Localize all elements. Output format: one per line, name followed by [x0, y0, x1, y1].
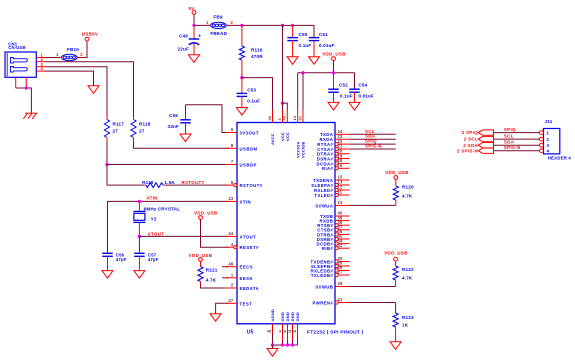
ground	[309, 57, 320, 65]
resistor R117	[106, 117, 108, 120]
svg-text:VDD_USB: VDD_USB	[385, 170, 408, 175]
svg-text:31: 31	[297, 115, 302, 120]
svg-text:USB5V: USB5V	[82, 32, 98, 37]
svg-text:1: 1	[547, 130, 550, 135]
ground	[287, 57, 298, 65]
svg-text:2 SPIQ: 2 SPIQ	[462, 130, 478, 135]
wire R121 to EEDATA	[201, 282, 230, 289]
pin 40 TXDB of U5	[335, 215, 350, 217]
capacitor C54	[354, 73, 356, 89]
wire shell to chassis ground	[16, 88, 32, 113]
svg-text:SPIS-N: SPIS-N	[504, 145, 521, 150]
svg-text:+: +	[198, 33, 201, 39]
resistor R121	[200, 261, 202, 266]
svg-text:C54: C54	[358, 83, 367, 88]
pin 16 RIA# of U5	[338, 167, 349, 169]
svg-text:AGND: AGND	[270, 309, 275, 322]
svg-text:XTIN: XTIN	[240, 199, 252, 204]
resistor R118	[133, 117, 135, 120]
off-page connector SPIQ	[478, 130, 493, 135]
svg-text:22uF: 22uF	[178, 47, 189, 52]
pin 43 XTIN of U5	[226, 200, 238, 202]
svg-text:6MHz CRYSTAL: 6MHz CRYSTAL	[144, 207, 181, 212]
svg-text:47: 47	[228, 298, 233, 303]
svg-text:32: 32	[338, 243, 343, 248]
svg-text:SPIS-N: SPIS-N	[365, 144, 382, 149]
svg-text:26: 26	[338, 281, 343, 286]
pin 41 PWREN# of U5	[338, 302, 349, 304]
ground	[134, 271, 145, 279]
wire XTIN	[108, 201, 230, 253]
off-page connector SCL	[478, 136, 493, 141]
node XTIN-crystal	[138, 200, 141, 203]
wire XTOUT	[139, 235, 229, 237]
svg-text:RIB#: RIB#	[322, 246, 334, 251]
svg-text:18: 18	[282, 330, 287, 334]
svg-text:27: 27	[113, 128, 119, 133]
svg-text:R123: R123	[402, 315, 414, 320]
wire FB9 to VCC rail	[227, 24, 242, 26]
wire TEST to ground	[216, 303, 229, 313]
wire CN1 pin1 to FB10	[45, 57, 61, 59]
svg-text:AVCC: AVCC	[270, 133, 275, 145]
svg-text:2 SPIS-N: 2 SPIS-N	[457, 148, 478, 153]
wire CN1 pin4 to ground	[45, 71, 94, 86]
svg-text:34: 34	[292, 330, 297, 334]
capacitor C52	[333, 73, 335, 89]
wire VDD_USB to RESET#	[201, 219, 230, 247]
svg-text:RESET#: RESET#	[240, 245, 260, 250]
node R116-C53-AVCC	[240, 76, 243, 79]
pin 44 XTOUT of U5	[226, 235, 238, 237]
wire VDD_USB to rail	[333, 61, 335, 73]
off-page connector SDA	[478, 143, 493, 148]
svg-text:11: 11	[338, 190, 343, 195]
svg-text:C53: C53	[247, 88, 256, 93]
svg-text:3V3OUT: 3V3OUT	[240, 131, 259, 136]
power port USB5V	[85, 37, 89, 41]
svg-text:0.1uF: 0.1uF	[340, 93, 353, 98]
pin 13 SLEEPA# of U5	[338, 184, 349, 186]
svg-text:10: 10	[338, 200, 343, 205]
wire to J11 pin 1	[494, 132, 540, 134]
pin 34 DCDB# of U5	[338, 243, 349, 245]
capacitor C53	[241, 78, 243, 94]
svg-text:1.5K: 1.5K	[164, 180, 175, 185]
wire VCCIOA column	[297, 73, 299, 110]
pin 37 CTSB# of U5	[338, 229, 349, 231]
ground	[390, 342, 401, 350]
wire 5V to rail	[193, 14, 195, 25]
svg-text:R121: R121	[206, 268, 218, 273]
pin 15 TXDENA of U5	[335, 179, 350, 181]
svg-text:FBEAD: FBEAD	[210, 31, 227, 36]
wire crystal to C57	[138, 236, 140, 253]
wire to AVCC pin	[242, 78, 273, 110]
wire FB10 to USB5V	[78, 41, 87, 58]
pin 35 DSRB# of U5	[338, 238, 349, 240]
svg-text:TXLEDB#: TXLEDB#	[311, 273, 334, 278]
pin 42 VCC of U5	[286, 110, 288, 123]
svg-text:FT2232 ( SPI PINOUT ): FT2232 ( SPI PINOUT )	[307, 330, 364, 336]
wire VCCIO rail	[298, 72, 355, 74]
crystal Y2	[138, 201, 140, 211]
svg-text:VCCIOB: VCCIOB	[301, 141, 306, 158]
svg-text:TEST: TEST	[240, 301, 253, 306]
pin 8 USBDM of U5	[226, 147, 238, 149]
off-page connector SPIS-N	[478, 148, 493, 153]
svg-text:0.01uF: 0.01uF	[319, 43, 335, 48]
wire junction down to RSTOUT net	[107, 165, 144, 186]
svg-text:C51: C51	[319, 32, 328, 37]
svg-text:SDA: SDA	[504, 140, 515, 145]
svg-text:45: 45	[267, 330, 272, 334]
svg-text:14: 14	[292, 115, 297, 120]
svg-text:RSTOUT#: RSTOUT#	[182, 180, 205, 185]
svg-text:33nF: 33nF	[168, 124, 179, 129]
junction GND bus	[281, 343, 284, 346]
svg-text:25: 25	[287, 330, 292, 334]
svg-text:16: 16	[338, 163, 343, 168]
resistor R116	[241, 25, 243, 46]
svg-text:SI/WUB: SI/WUB	[315, 284, 333, 289]
pin 36 DTRB# of U5	[338, 233, 349, 235]
wire to J11 pin 3	[494, 144, 540, 146]
junction GND bus	[291, 343, 294, 346]
svg-text:CN-USB: CN-USB	[8, 45, 25, 50]
svg-text:SI/WUA: SI/WUA	[315, 203, 333, 208]
pin 31 VCCIOB of U5	[302, 110, 304, 123]
pin 7 USBDP of U5	[226, 164, 238, 166]
svg-text:2: 2	[547, 137, 550, 142]
pin 24 TXDA of U5	[335, 133, 350, 135]
svg-text:470R: 470R	[251, 54, 263, 59]
svg-text:2: 2	[80, 52, 83, 57]
svg-text:VDD_USB: VDD_USB	[194, 210, 217, 215]
svg-text:R117: R117	[113, 121, 125, 126]
svg-text:0.01uF: 0.01uF	[358, 93, 374, 98]
svg-text:46: 46	[267, 115, 272, 120]
svg-text:FB9: FB9	[213, 15, 222, 20]
svg-text:4.7K: 4.7K	[206, 278, 217, 283]
wire R120 to SI/WUA	[350, 204, 396, 206]
svg-text:4: 4	[41, 66, 44, 71]
wire C55 to 3V3OUT	[186, 105, 230, 133]
svg-text:J11: J11	[545, 119, 553, 124]
svg-text:R118: R118	[139, 121, 151, 126]
svg-text:4.7K: 4.7K	[402, 276, 413, 281]
node USBDP junction	[105, 163, 108, 166]
svg-text:EECS: EECS	[240, 265, 254, 270]
svg-text:27: 27	[338, 270, 343, 275]
svg-text:41: 41	[338, 297, 343, 302]
wire PWREN# to R123	[350, 302, 396, 304]
svg-text:43: 43	[228, 196, 233, 201]
wire rail to C51	[293, 25, 314, 37]
wire R118 to USBDM	[134, 141, 230, 148]
svg-text:R120: R120	[402, 184, 414, 189]
pin 6 3V3OUT of U5	[226, 132, 238, 134]
wire R117 to USBDP junction	[106, 141, 108, 165]
pin 29 SLEEPB# of U5	[338, 265, 349, 267]
wire rail to C50	[283, 24, 293, 26]
svg-text:47pF: 47pF	[116, 257, 127, 262]
svg-text:SCL: SCL	[504, 134, 514, 139]
svg-text:FB10: FB10	[67, 47, 79, 52]
ground	[189, 55, 200, 63]
pin 11 TXLED# of U5	[338, 194, 349, 196]
wire CN1 pin3 to R117	[45, 67, 108, 117]
svg-text:EEDATA: EEDATA	[240, 286, 260, 291]
resistor R120	[395, 179, 397, 186]
node VCCIOB	[301, 71, 304, 74]
svg-text:VCC: VCC	[285, 132, 290, 141]
pin 28 RXLEDB# of U5	[338, 270, 349, 272]
svg-text:RSTOUT#: RSTOUT#	[240, 183, 263, 188]
wire R122 to SI/WUB	[350, 286, 396, 288]
capacitor C51	[309, 37, 320, 39]
pin 14 VCCIOA of U5	[297, 110, 299, 123]
svg-text:XTOUT: XTOUT	[240, 234, 257, 239]
wire R119 to RSTOUT# pin	[166, 184, 229, 186]
svg-text:VDD_USB: VDD_USB	[384, 250, 407, 255]
svg-text:42: 42	[282, 115, 287, 120]
svg-text:HEADER 4: HEADER 4	[548, 156, 572, 161]
svg-text:RIA#: RIA#	[322, 166, 334, 171]
ground	[180, 134, 191, 142]
svg-text:0.1uF: 0.1uF	[299, 43, 312, 48]
pin 47 TEST of U5	[226, 302, 238, 304]
node rail-R116	[240, 24, 243, 27]
pin 3 VCC of U5	[282, 110, 284, 123]
pin 12 RXLED# of U5	[338, 189, 349, 191]
junction shell ground	[25, 86, 28, 89]
wire EESK stub	[222, 277, 229, 279]
ground	[102, 271, 113, 279]
svg-text:47pF: 47pF	[148, 257, 159, 262]
svg-text:C55: C55	[169, 113, 178, 118]
node XTOUT-crystal	[138, 235, 141, 238]
svg-text:R122: R122	[402, 267, 414, 272]
op-amp U1 IC body U5 FT2232	[237, 123, 335, 324]
svg-text:GND: GND	[295, 312, 300, 321]
wire GND bus to ground	[272, 345, 274, 349]
svg-text:EESK: EESK	[240, 276, 254, 281]
pin 20 DTRA# of U5	[338, 153, 349, 155]
svg-text:SPIQ: SPIQ	[504, 127, 516, 132]
ground	[328, 102, 339, 110]
pin 9 GND of U5	[282, 324, 284, 341]
pin 25 GND of U5	[292, 324, 294, 341]
svg-text:48: 48	[228, 261, 233, 266]
svg-text:R119: R119	[142, 180, 154, 185]
wire EECS stub	[222, 266, 229, 268]
wire to J11 pin 2	[494, 138, 540, 140]
ground	[349, 102, 360, 110]
pin 3 of CN1	[36, 66, 44, 68]
node VDD_USB-C52	[332, 71, 335, 74]
pin 19 DSRA# of U5	[338, 158, 349, 160]
svg-text:4.7K: 4.7K	[402, 193, 413, 198]
pin 38 RTSB# of U5	[338, 224, 349, 226]
wire USBDP	[107, 164, 229, 166]
pin 23 RXDA of U5	[335, 138, 350, 140]
pin 18 DCDA# of U5	[338, 162, 349, 164]
ferrite bead FB9	[211, 22, 227, 28]
svg-text:3: 3	[547, 143, 550, 148]
pin 39 RXDB of U5	[335, 220, 350, 222]
pin 21 CTSA# of U5	[338, 148, 349, 150]
wire to FB9	[194, 24, 210, 26]
svg-text:1K: 1K	[402, 323, 409, 328]
resistor R119	[144, 184, 147, 186]
svg-text:2 SCL: 2 SCL	[464, 137, 478, 142]
pin 48 EECS of U5	[226, 266, 238, 268]
pin 26 SI/WUB of U5	[335, 286, 350, 288]
svg-text:VDD_USB: VDD_USB	[322, 52, 345, 57]
pin 45 AGND of U5	[272, 324, 274, 341]
ground	[236, 108, 247, 116]
resistor R123	[393, 313, 398, 327]
capacitor C49	[193, 27, 195, 39]
node VCC pins	[281, 101, 284, 104]
pin 1 of CN1	[36, 57, 44, 59]
svg-text:R116: R116	[251, 47, 263, 52]
pin 22 RTSA# of U5	[338, 143, 349, 145]
svg-text:2 SDA: 2 SDA	[463, 143, 478, 148]
chassis ground	[25, 112, 38, 114]
svg-text:44: 44	[228, 231, 233, 236]
capacitor C50	[292, 25, 294, 37]
pin 1 EESK of U5	[226, 277, 238, 279]
pin 10 SI/WUA of U5	[335, 204, 350, 206]
capacitor C57	[134, 252, 145, 254]
pin 4 of CN1	[36, 70, 44, 72]
pin 32 RIB# of U5	[338, 247, 349, 249]
node rail-C50	[291, 24, 294, 27]
wire VCC pin3 column	[282, 25, 284, 103]
connector CN1 USB receptacle	[5, 52, 36, 77]
svg-text:XTIN: XTIN	[146, 196, 157, 201]
svg-text:Y2: Y2	[151, 216, 157, 221]
pin 27 TXLEDB# of U5	[338, 274, 349, 276]
svg-text:1: 1	[56, 52, 59, 57]
ground	[210, 314, 221, 322]
svg-text:C50: C50	[299, 32, 308, 37]
pin 34 GND of U5	[297, 324, 299, 341]
svg-text:PWREN#: PWREN#	[313, 300, 334, 305]
pin 4 RESET# of U5	[226, 246, 234, 248]
svg-text:TXLED#: TXLED#	[314, 193, 333, 198]
junction GND bus	[286, 343, 289, 346]
wire CN1 pin2 to R118	[45, 62, 134, 117]
pin 2 EEDATA of U5	[226, 287, 238, 289]
svg-text:XTOUT: XTOUT	[148, 231, 165, 236]
CN1 shell pins	[15, 77, 17, 88]
svg-text:USBDP: USBDP	[240, 163, 257, 168]
ground	[88, 86, 99, 94]
svg-text:C52: C52	[339, 83, 348, 88]
junction GND bus	[271, 343, 274, 346]
wire VCCIOB column	[302, 73, 304, 110]
svg-text:27: 27	[139, 128, 145, 133]
wire VCC rail	[242, 24, 283, 26]
resistor R122	[395, 261, 397, 266]
svg-text:4: 4	[547, 148, 550, 153]
pin 2 of CN1	[36, 61, 44, 63]
node VBUS-C49	[192, 24, 195, 27]
svg-text:2: 2	[231, 20, 234, 25]
svg-text:C49: C49	[179, 33, 188, 38]
ground	[267, 349, 278, 357]
svg-text:U5: U5	[247, 330, 254, 336]
svg-text:1: 1	[206, 20, 209, 25]
wire to J11 pin 4	[494, 150, 540, 152]
wire VCC pin42 branch	[283, 103, 288, 110]
capacitor C56	[102, 252, 113, 254]
ferrite bead FB10	[62, 54, 78, 60]
svg-text:0.1uF: 0.1uF	[247, 98, 260, 103]
pin 30 TXDENB# of U5	[338, 261, 349, 263]
pin 18 GND of U5	[287, 324, 289, 341]
pin 5 RSTOUT# of U5	[226, 184, 234, 186]
svg-text:USBDM: USBDM	[240, 146, 258, 151]
svg-text:VCCIOA: VCCIOA	[295, 141, 300, 158]
wire GND bus	[273, 333, 298, 345]
node rail-VCC	[281, 24, 284, 27]
pin 46 AVCC of U5	[272, 110, 274, 123]
